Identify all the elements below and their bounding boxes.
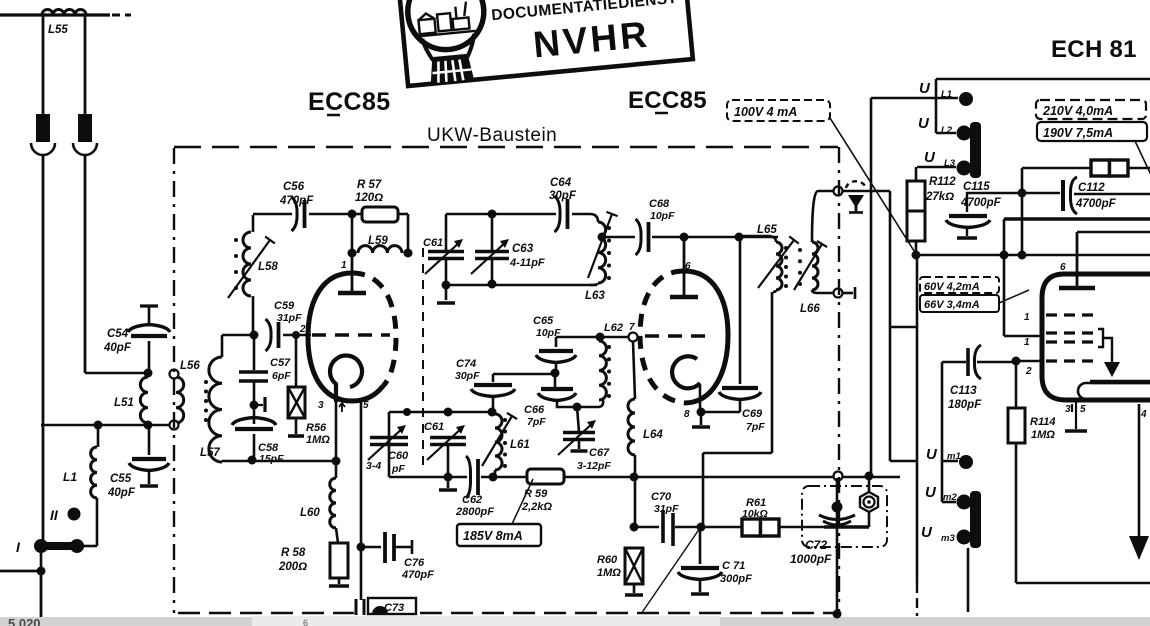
svg-text:R56: R56 (306, 422, 327, 434)
svg-text:pF: pF (391, 463, 405, 475)
grid g1 ECH81 (1046, 313, 1098, 316)
svg-text:C59: C59 (274, 300, 295, 312)
trimmer arrow L58 (228, 237, 275, 299)
svg-text:m1: m1 (947, 451, 961, 462)
wire ground bus left (0, 570, 41, 573)
wire y168 right (1022, 167, 1091, 170)
svg-text:1000pF: 1000pF (790, 552, 832, 566)
feedthrough L56 top (170, 370, 179, 379)
ground C67 (571, 449, 588, 453)
svg-text:L2: L2 (941, 125, 953, 136)
wire osc bottom (446, 284, 597, 287)
junction rail b (1018, 251, 1027, 260)
capacitor C54 stub bar (140, 304, 158, 307)
pointer line detector (641, 528, 700, 614)
grid g2 ECH81 (1046, 331, 1098, 334)
switch bar I (36, 542, 84, 550)
wire C55 stem (148, 425, 151, 455)
wire bracket riser (1103, 338, 1112, 364)
svg-text:L1: L1 (63, 470, 77, 484)
capacitor C113 (968, 345, 981, 379)
junction C58 top (250, 401, 259, 410)
svg-text:L64: L64 (643, 429, 663, 441)
junction gang c (488, 408, 497, 417)
junction grid node A (250, 331, 259, 340)
junction C113 R114 (1012, 357, 1021, 366)
svg-text:2: 2 (1025, 366, 1032, 377)
capacitor C64 (555, 196, 568, 232)
stamp tube base (428, 55, 474, 85)
svg-text:7pF: 7pF (527, 416, 546, 428)
core dots L66 (798, 248, 802, 286)
junction C67 top (573, 403, 582, 412)
wire screen riser (1021, 168, 1024, 255)
wire R112 bottom (915, 241, 918, 253)
wire anode2 stem (683, 237, 686, 295)
svg-text:1MΩ: 1MΩ (1031, 429, 1055, 441)
junction R57 left (348, 210, 357, 219)
feedthrough L56 bottom (170, 421, 179, 430)
UKW box bottom edge a (178, 612, 354, 614)
socket right (73, 143, 97, 155)
svg-text:C115: C115 (963, 181, 990, 193)
trimmer arrow L61 (482, 413, 517, 466)
wire top rail (936, 78, 1150, 81)
junction C76 (357, 543, 366, 552)
svg-text:R 58: R 58 (281, 547, 306, 559)
wire to C112 (1024, 192, 1060, 194)
ground C71 (691, 592, 709, 596)
stamp border (397, 0, 693, 86)
svg-text:L58: L58 (258, 261, 278, 273)
resistor R59 (527, 469, 564, 484)
anode bar ECH81 (1059, 286, 1095, 291)
stamp logo houses (413, 1, 476, 37)
wire C57 to C58 (253, 381, 256, 404)
wire C61 top stem (445, 214, 448, 250)
wire R60 gnd stem (633, 584, 636, 593)
wire C115 top (967, 193, 1022, 212)
capacitor C61 rf (427, 425, 466, 460)
capacitor C58 (232, 418, 276, 430)
stamp tube neck (422, 34, 476, 60)
svg-text:U: U (921, 524, 933, 541)
capacitor C62 (466, 456, 478, 498)
wire return horiz (703, 452, 772, 455)
wire L62 bottom (598, 400, 603, 407)
junction L63 tap (598, 233, 607, 242)
inductor L60 (330, 478, 336, 528)
svg-text:C68: C68 (649, 198, 670, 210)
wire into R57 (352, 213, 362, 216)
svg-text:2: 2 (299, 324, 306, 335)
capacitor C66 (538, 389, 576, 401)
svg-text:1MΩ: 1MΩ (597, 567, 621, 579)
wire R113 right (1128, 167, 1150, 170)
svg-text:66V 3,4mA: 66V 3,4mA (924, 299, 980, 311)
capacitor C70 (663, 510, 673, 546)
anode bar triode2 (670, 295, 698, 300)
feedthrough bus477 (834, 472, 843, 481)
junction C72 stem (832, 502, 843, 513)
wire det a (634, 526, 659, 529)
callout 66V (920, 295, 999, 312)
junction anode2 (680, 233, 689, 242)
wire C61b gnd stem (447, 477, 450, 488)
terminal Um3 plug (957, 530, 972, 545)
terminal stub (854, 287, 857, 299)
wire link 327 (890, 326, 917, 328)
junction gang b (444, 408, 453, 417)
core dots L58 (234, 238, 238, 290)
svg-text:10kΩ: 10kΩ (742, 508, 768, 520)
wire L61 bottom (494, 470, 497, 477)
wire L1 top stem (97, 425, 100, 447)
scanner strip light middle (252, 616, 720, 626)
svg-text:190V 7,5mA: 190V 7,5mA (1043, 126, 1113, 140)
junction L62 top (596, 333, 605, 342)
terminal UL2 plug (957, 126, 972, 141)
inductor L55 coil (42, 10, 86, 16)
wire C63 bottom stem (491, 260, 494, 284)
wire ECH anode stem (1076, 232, 1079, 286)
svg-text:27kΩ: 27kΩ (925, 191, 954, 203)
wire C68 to L65 (652, 236, 778, 239)
svg-text:1: 1 (341, 260, 347, 271)
terminal Um2 plug (957, 495, 972, 510)
wire Um1 stub (942, 460, 958, 463)
wire gang top (389, 411, 492, 414)
svg-text:180pF: 180pF (948, 399, 982, 411)
feedthrough bushing (860, 492, 878, 512)
svg-text:7pF: 7pF (746, 421, 765, 433)
pointer 185V (512, 479, 533, 524)
svg-text:U: U (918, 115, 930, 132)
svg-text:C54: C54 (107, 328, 129, 340)
node pin7 (629, 333, 638, 342)
capacitor C72 bar (824, 525, 869, 528)
wire switch down (40, 550, 43, 569)
switch contact right (70, 539, 84, 553)
resistor R61 (742, 519, 779, 536)
svg-text:L55: L55 (48, 24, 68, 36)
capacitor C74 (471, 385, 515, 397)
wire to L51 top (85, 372, 148, 375)
wire C72 right leg (868, 476, 871, 527)
ground R60 (625, 593, 643, 597)
wire L57 bot corner (221, 461, 224, 462)
junction L51 top (144, 369, 153, 378)
wire R56 top (295, 335, 298, 386)
wire C58 to node (253, 434, 256, 460)
tube ECH81 envelope (1042, 274, 1150, 400)
capacitor C73 box (368, 598, 416, 614)
wire L58 top (252, 215, 255, 232)
capacitor C61 osc (425, 239, 464, 274)
svg-text:120Ω: 120Ω (355, 192, 383, 204)
junction C58 bottom (248, 456, 257, 465)
svg-text:3: 3 (1065, 404, 1071, 415)
wire R61 right (779, 526, 824, 529)
svg-text:5: 5 (1080, 404, 1086, 415)
svg-text:C76: C76 (404, 557, 425, 569)
wire C61b down (447, 446, 450, 477)
pin35 stub (1072, 400, 1076, 416)
svg-text:31pF: 31pF (654, 503, 679, 515)
wire R56 bottom (295, 418, 298, 434)
wire R114 top (1015, 361, 1018, 408)
wire L66 top (812, 191, 833, 242)
capacitor C72 plates (819, 515, 855, 525)
wire bus477 b (481, 476, 527, 479)
wire anode stem (351, 253, 354, 291)
svg-text:UKW-Baustein: UKW-Baustein (427, 125, 557, 146)
wire g-riser (1003, 219, 1006, 336)
svg-text:30pF: 30pF (549, 190, 577, 202)
ground R56 (288, 434, 304, 438)
inductor L59 (358, 246, 402, 253)
feedthrough L66 bottom (834, 289, 843, 298)
svg-text:L62: L62 (604, 322, 623, 334)
wire L58 to C56 (253, 213, 292, 216)
resistor R58 (330, 543, 348, 578)
inductor L57 (209, 357, 222, 462)
wire L57 to C59 node (222, 334, 253, 337)
wire pin8 to C69 (701, 411, 740, 414)
wire Um feed (870, 98, 873, 476)
capacitor C72 housing (802, 486, 887, 547)
wire C67 top stem (577, 407, 579, 432)
svg-text:40pF: 40pF (103, 342, 132, 354)
wire left feeder (42, 155, 45, 542)
resistor R114 (1008, 408, 1025, 443)
wire C67 gnd stem (578, 441, 581, 449)
wire C71 stem (699, 527, 702, 564)
svg-text:2,2kΩ: 2,2kΩ (521, 501, 552, 513)
wire mixer grid (556, 336, 629, 339)
resistor R60 (625, 548, 643, 584)
UKW box bottom edge b (420, 612, 838, 614)
svg-text:3-4: 3-4 (366, 460, 381, 472)
svg-text:6pF: 6pF (272, 370, 291, 382)
trimmer arrow L63 (588, 212, 618, 278)
inductor L62 (599, 341, 606, 400)
svg-text:3-12pF: 3-12pF (577, 460, 611, 472)
svg-text:10pF: 10pF (536, 327, 561, 339)
tube ECC85 triode1 envelope solid (308, 273, 383, 401)
svg-text:C72: C72 (805, 538, 827, 552)
svg-text:40pF: 40pF (107, 487, 136, 499)
svg-text:L61: L61 (510, 439, 530, 451)
svg-text:L65: L65 (757, 224, 777, 236)
wire AGC down (889, 191, 892, 461)
wire bus477 c (564, 476, 900, 479)
svg-text:200Ω: 200Ω (278, 561, 307, 573)
capacitor C69 (719, 388, 761, 400)
svg-text:4: 4 (1140, 409, 1147, 420)
svg-text:C67: C67 (589, 447, 610, 459)
wire C65 top stem (555, 337, 558, 347)
wire L58 bottom (252, 296, 255, 335)
wire C74 bottom stem (492, 396, 495, 412)
svg-text:C113: C113 (950, 385, 977, 397)
capacitor C65 (536, 351, 576, 363)
terminal C76 (411, 540, 414, 554)
wire C69 bottom (739, 400, 742, 412)
wire C69 riser (739, 237, 742, 384)
wire anode riser (351, 214, 354, 253)
socket left (31, 143, 55, 155)
inductor L61 (495, 414, 502, 470)
capacitor C63 (471, 239, 509, 274)
wire C112 right (1074, 193, 1150, 195)
svg-text:C74: C74 (456, 358, 476, 370)
wire osc top (446, 213, 556, 216)
wire L65 bottom (773, 290, 776, 292)
svg-text:C73: C73 (384, 602, 404, 614)
wire L1 bottom stem (96, 498, 99, 546)
stamp logo bulb (404, 0, 487, 53)
wire bus477 a (389, 476, 467, 479)
resistor R56 (288, 387, 305, 418)
wire lower node (41, 424, 174, 427)
capacitor C71 (678, 568, 722, 580)
capacitor C73 bump (372, 606, 388, 614)
terminal UL1 (959, 92, 973, 106)
UKW box left edge (173, 148, 175, 613)
wire cathode leg (335, 399, 338, 461)
capacitor C67 (558, 420, 596, 455)
wire C115 gnd stem (966, 228, 968, 236)
junction C61b bottom (444, 473, 453, 482)
wire anode rail thick (1004, 217, 1150, 221)
svg-text:L59: L59 (368, 235, 388, 247)
underline ECC85 right (655, 112, 668, 115)
svg-text:m3: m3 (941, 533, 955, 544)
wire box bottom right (1016, 582, 1150, 585)
trimmer arrow L65 (758, 236, 799, 288)
svg-text:6: 6 (1060, 262, 1066, 273)
wire top link (871, 97, 958, 100)
wire det b (675, 526, 742, 529)
wire IF box left (916, 255, 919, 583)
capacitor C115 (946, 216, 990, 228)
signal arrow ECH81 (1129, 404, 1149, 560)
inductor L51 (140, 377, 148, 423)
junction C65-C66 (551, 369, 560, 378)
resistor R57 (362, 207, 398, 222)
core dots L62 (607, 345, 611, 398)
wire C65 bottom stem (555, 362, 558, 373)
svg-text:C65: C65 (533, 315, 554, 327)
wire C56 to R57 (309, 213, 352, 216)
wire L63 bottom (590, 283, 598, 285)
ground C115 (957, 236, 977, 240)
cathode triode1 (330, 356, 362, 402)
junction anode node (348, 249, 357, 258)
inductor L63 (598, 222, 606, 283)
svg-text:R112: R112 (929, 176, 956, 188)
callout 185V 8mA (457, 524, 541, 546)
wire Um2 stub (942, 501, 956, 504)
wire stub right (843, 292, 853, 295)
junction C72 top (865, 472, 874, 481)
wire L60 to R58 (336, 528, 338, 543)
grid bracket ECH81 (1098, 329, 1103, 347)
wire into L60 (335, 461, 338, 478)
terminal UL3 plug (957, 161, 972, 176)
svg-text:10pF: 10pF (650, 210, 675, 222)
wire heater leg (360, 399, 363, 546)
plug right (78, 114, 92, 142)
ground pin35 (1065, 429, 1087, 433)
inductor L1 (91, 447, 97, 498)
wire link 461 (890, 460, 917, 462)
wire into C66 (554, 373, 557, 388)
cathode triode2 (672, 356, 700, 388)
wire R112 top (915, 167, 918, 181)
callout 100V 4mA (727, 100, 830, 121)
junction 100V node (912, 251, 921, 260)
svg-text:100V 4 mA: 100V 4 mA (734, 105, 797, 119)
callout 60V (920, 277, 999, 293)
wire L64 top stem (633, 341, 635, 399)
connector bar Um (970, 491, 981, 548)
wire right feeder (84, 155, 87, 373)
junction R60 top (630, 523, 639, 532)
wire C74 link (493, 373, 555, 376)
wire C66 bottom (557, 400, 598, 407)
trimmer arrow L66 (794, 241, 827, 290)
svg-text:60V 4,2mA: 60V 4,2mA (924, 281, 980, 293)
svg-text:C57: C57 (270, 357, 291, 369)
wire R57 right (398, 213, 408, 216)
svg-text:470pF: 470pF (279, 195, 314, 207)
svg-text:4-11pF: 4-11pF (509, 257, 545, 269)
terminal Um1 (959, 455, 973, 469)
wire cathode2 stem (699, 385, 702, 410)
svg-text:ECC85: ECC85 (628, 87, 707, 114)
gang coupling dashed (422, 248, 424, 468)
wire Um3 down (967, 548, 970, 612)
switch position II dot (68, 508, 81, 521)
wire IF top (602, 236, 635, 239)
junction C72 ground (833, 610, 842, 619)
wire pin35 gnd (1075, 416, 1077, 429)
wire L57 to C58 node (222, 460, 252, 463)
wire L64 down (634, 455, 637, 527)
ground C61b (439, 488, 457, 492)
wire Um bracket (941, 362, 944, 502)
svg-text:L60: L60 (300, 507, 320, 519)
capacitor C76 (385, 532, 394, 563)
wire C54 to node (148, 341, 151, 373)
junction C63 top (488, 210, 497, 219)
svg-text:U: U (919, 80, 931, 97)
callout 190V (1037, 122, 1147, 141)
UKW box right edge (838, 147, 840, 613)
wire C113 left (942, 361, 966, 363)
wire pin1 stub (1004, 335, 1042, 338)
svg-text:C62: C62 (462, 494, 482, 506)
wire gang left (388, 412, 391, 477)
svg-text:R114: R114 (1030, 416, 1055, 428)
wire UL2 stub (936, 132, 956, 135)
wire R114 down (1015, 443, 1018, 583)
anode bar triode1 (338, 291, 366, 296)
svg-text:ECC85: ECC85 (308, 88, 391, 116)
capacitor C68 (636, 219, 649, 255)
